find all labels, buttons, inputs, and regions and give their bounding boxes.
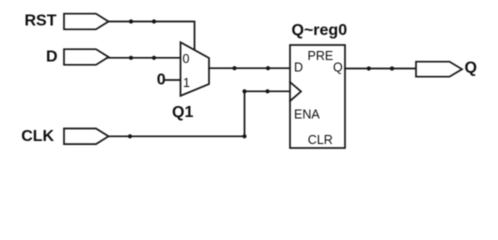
- wire constant 0 to mux port 1: [166, 79, 181, 81]
- svg-text:RST: RST: [25, 13, 57, 30]
- svg-text:Q1: Q1: [172, 104, 193, 121]
- junction dot Q wire 2: [390, 66, 394, 70]
- wire RST pin to mux select: [109, 22, 195, 50]
- junction dot RST wire 1: [129, 19, 133, 23]
- wire CLK pin to flipflop clock: [109, 91, 291, 136]
- junction dot mux output 1: [232, 66, 236, 70]
- junction dot D wire 1: [129, 56, 133, 60]
- svg-text:D: D: [294, 61, 303, 75]
- svg-text:ENA: ENA: [294, 108, 320, 122]
- svg-text:1: 1: [183, 76, 190, 90]
- junction dot CLK wire 2: [265, 89, 269, 93]
- mux Q1: [181, 42, 210, 96]
- svg-text:D: D: [46, 48, 58, 65]
- svg-text:0: 0: [157, 72, 166, 89]
- svg-text:Q: Q: [333, 61, 343, 75]
- svg-text:CLR: CLR: [308, 133, 333, 147]
- input pin D: [64, 49, 109, 65]
- junction dot RST wire 2: [152, 19, 156, 23]
- junction dot CLK corner top: [242, 89, 246, 93]
- svg-text:CLK: CLK: [21, 128, 54, 145]
- output pin Q: [416, 62, 462, 77]
- svg-text:0: 0: [183, 52, 190, 66]
- wire mux output to flipflop D: [209, 67, 290, 69]
- svg-text:Q~reg0: Q~reg0: [292, 22, 348, 39]
- flip-flop clock triangle: [290, 82, 301, 101]
- junction dot CLK wire: [128, 134, 132, 138]
- svg-text:PRE: PRE: [308, 49, 334, 63]
- input pin CLK: [64, 129, 109, 145]
- wire D pin to mux port 0: [109, 57, 181, 59]
- wire flipflop Q to output pin: [345, 68, 416, 70]
- junction dot mux output 2: [266, 66, 270, 70]
- junction dot Q wire 1: [367, 66, 371, 70]
- junction dot CLK corner bottom: [242, 134, 246, 138]
- flip-flop U1 Q~reg0 body: [290, 45, 345, 148]
- input pin RST: [64, 14, 109, 30]
- svg-text:Q: Q: [465, 59, 477, 76]
- junction dot D wire 2: [152, 56, 156, 60]
